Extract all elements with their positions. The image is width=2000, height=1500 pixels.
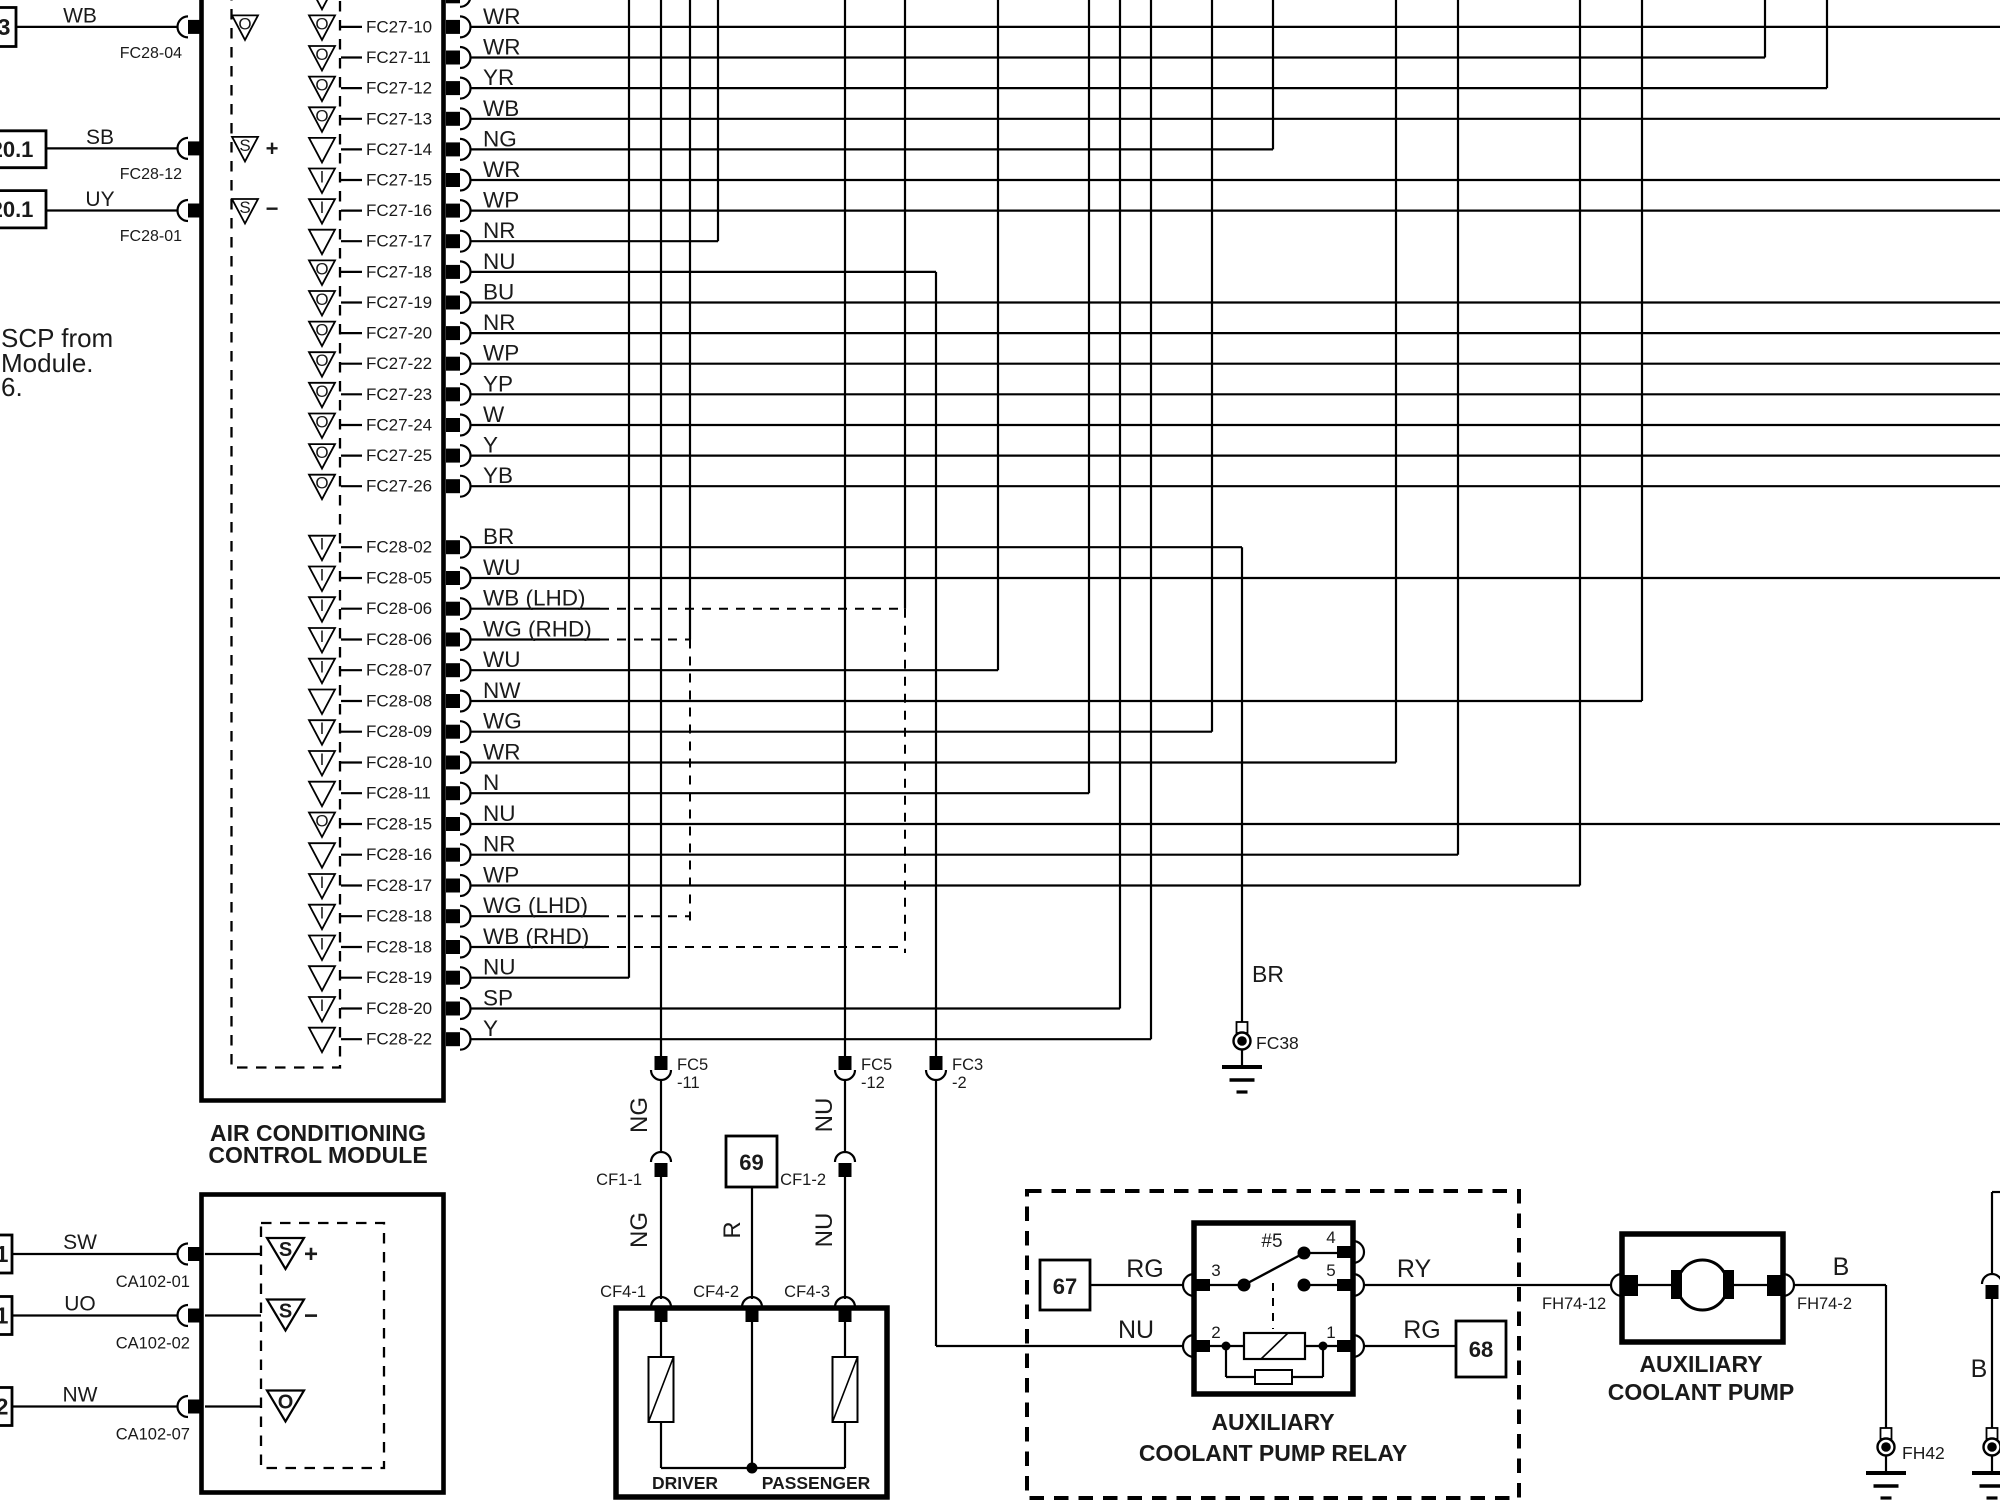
wire NU FC27-18 down to connector FC3-2: [471, 271, 936, 273]
svg-text:YP: YP: [483, 371, 513, 396]
wire B far right from page edge: [1992, 1191, 2000, 1193]
symbol triangle FC28-22: [309, 1028, 335, 1053]
svg-text:69: 69: [739, 1150, 763, 1175]
svg-text:FC27-19: FC27-19: [366, 293, 432, 312]
pin FC27-20: [446, 326, 460, 340]
motor brush right: [1723, 1270, 1734, 1299]
pin FC28-07: [446, 663, 460, 677]
symbol triangle FC27-20: [309, 322, 335, 347]
ground FC38: [1237, 1022, 1248, 1033]
svg-text:4: 4: [1326, 1228, 1335, 1247]
pin FC27-14: [446, 142, 460, 156]
svg-text:FC28-19: FC28-19: [366, 968, 432, 987]
pin tick FC27-15: [341, 179, 362, 181]
relay coil: [1210, 1345, 1244, 1347]
symbol triangle FC27-22: [309, 352, 335, 377]
svg-text:FC27-26: FC27-26: [366, 477, 432, 496]
svg-text:WG: WG: [483, 709, 522, 734]
svg-text:I: I: [320, 719, 325, 738]
svg-text:#5: #5: [1261, 1231, 1282, 1252]
pin FC27-18: [446, 265, 460, 279]
svg-text:O: O: [315, 76, 328, 95]
wire RG from 67 to relay pin 3: [1090, 1284, 1183, 1286]
relay pin 2: [1183, 1335, 1194, 1357]
wire driver resistor to junction: [660, 1422, 662, 1468]
svg-text:NU: NU: [483, 955, 516, 980]
svg-text:O: O: [315, 14, 328, 33]
wire Y FC28-22 turns up at x=1151: [471, 1038, 1151, 1040]
wire NG FC5-11 to CF1-1: [660, 1080, 662, 1152]
svg-text:FC28-02: FC28-02: [366, 538, 432, 557]
svg-text:FC28-20: FC28-20: [366, 999, 432, 1018]
symbol triangle FC28-20: [309, 997, 335, 1022]
connector box page-ref NW (cut at left edge): [0, 1388, 12, 1426]
pin CA102-02: [188, 1309, 202, 1323]
svg-text:−: −: [304, 1303, 318, 1330]
wire CF4-2 to junction: [751, 1322, 753, 1468]
pump pin FH74-2 bump: [1783, 1274, 1794, 1296]
pin FC27-22: [446, 357, 460, 371]
pin tick FC28-19: [341, 977, 362, 979]
wire NU CF1-2 to CF4-3: [844, 1177, 846, 1299]
svg-text:RG: RG: [1126, 1255, 1164, 1283]
module sun sensor box (DRIVER/PASSENGER): [616, 1308, 887, 1497]
svg-text:FH74-12: FH74-12: [1542, 1295, 1606, 1313]
symbol triangle FC28-08: [309, 690, 335, 715]
svg-text:FC28-12: FC28-12: [120, 166, 182, 183]
svg-text:S: S: [279, 1239, 292, 1261]
svg-text:WR: WR: [483, 740, 521, 765]
svg-text:PASSENGER: PASSENGER: [762, 1473, 871, 1493]
connector box 20.1 lower: [0, 191, 46, 228]
svg-text:BR: BR: [1252, 961, 1284, 987]
pin tick FC27-20: [341, 332, 362, 334]
svg-text:Y: Y: [483, 1016, 498, 1041]
connector CF4-2: [742, 1297, 762, 1307]
svg-text:FC28-15: FC28-15: [366, 815, 432, 834]
svg-text:FC28-22: FC28-22: [366, 1030, 432, 1049]
pin tick FC28-05: [341, 577, 362, 579]
symbol triangle FC27-15: [309, 169, 335, 194]
module ACCM inner dashed function box: [232, 0, 341, 1068]
pin FC28-18: [446, 909, 460, 923]
relay box: [1194, 1223, 1353, 1394]
svg-text:AUXILIARY: AUXILIARY: [1639, 1351, 1762, 1377]
relay switch blade #5: [1244, 1253, 1304, 1285]
wire UO inside module: [205, 1314, 261, 1316]
pin tick FC27-22: [341, 363, 362, 365]
wire Y FC27-25 to right edge: [471, 455, 2000, 457]
relay coil junction right: [1319, 1342, 1328, 1351]
wire NU from FC3-2 to relay pin 2: [935, 1080, 937, 1346]
pin FC27-15: [446, 173, 460, 187]
pin tick FC27-25: [341, 455, 362, 457]
svg-text:FC27-20: FC27-20: [366, 324, 432, 343]
svg-text:FC28-18: FC28-18: [366, 907, 432, 926]
pin tick FC28-09: [341, 731, 362, 733]
svg-text:FH74-2: FH74-2: [1797, 1295, 1852, 1313]
pin tick FC27-10: [341, 26, 362, 28]
svg-text:YB: YB: [483, 463, 513, 488]
wire SP FC28-20 turns up at x=1120: [471, 1007, 1120, 1009]
wire BR FC28-02 down to ground FC38: [471, 546, 1242, 548]
wire SB from box 20.1 to pin FC28-12: [46, 147, 177, 149]
wire YB FC27-26 to right edge: [471, 485, 2000, 487]
svg-text:-2: -2: [952, 1074, 967, 1092]
pin FC28-01: [188, 204, 202, 218]
pin FC28-20: [446, 1002, 460, 1016]
svg-text:R: R: [719, 1221, 746, 1238]
symbol triangle FC27-10: [309, 15, 335, 40]
pin FC27-19: [446, 296, 460, 310]
symbol triangle FC27-25: [309, 444, 335, 469]
symbol O triangle (FC28-04 output): [232, 15, 258, 40]
pump pin FH74-12 bump: [1611, 1274, 1622, 1296]
pin tick FC28-06: [341, 638, 362, 640]
pin FC27-17: [446, 234, 460, 248]
svg-text:FC27-24: FC27-24: [366, 416, 432, 435]
svg-text:NR: NR: [483, 218, 516, 243]
wire BU FC27-19 to right edge: [471, 301, 2000, 303]
symbol triangle S− CA102-02: [267, 1300, 304, 1331]
wire WB from box 3 to pin FC28-04: [16, 26, 177, 28]
motor brush left: [1671, 1270, 1682, 1299]
svg-text:NW: NW: [483, 678, 521, 703]
wire WG FC28-09 turns up at x=1212: [471, 731, 1212, 733]
wire NW to pin CA102-07: [12, 1405, 177, 1407]
pin tick FC27-16: [341, 210, 362, 212]
symbol triangle FC27-17: [309, 230, 335, 255]
svg-text:Y: Y: [483, 433, 498, 458]
symbol triangle FC28-18: [309, 936, 335, 961]
svg-text:2: 2: [0, 1394, 8, 1420]
svg-text:20.1: 20.1: [0, 197, 33, 222]
svg-text:B: B: [1833, 1253, 1850, 1281]
svg-text:FC27-25: FC27-25: [366, 446, 432, 465]
module ACCM box (lower connector): [202, 1195, 444, 1493]
symbol triangle FC28-07: [309, 659, 335, 684]
pin FC28-06: [446, 602, 460, 616]
pin tick FC27-11: [341, 56, 362, 58]
pin FC28-08: [446, 694, 460, 708]
resistor driver (variable): [649, 1357, 674, 1422]
svg-text:I: I: [320, 750, 325, 769]
pin tick FC28-08: [341, 700, 362, 702]
svg-text:S: S: [239, 198, 250, 217]
pin CA102-01: [188, 1247, 202, 1261]
svg-text:6.: 6.: [1, 372, 23, 402]
wire SW inside module: [205, 1253, 261, 1255]
svg-text:O: O: [315, 290, 328, 309]
pin FC27-26: [446, 479, 460, 493]
svg-text:CF1-2: CF1-2: [780, 1171, 826, 1189]
wire W FC27-24 to right edge: [471, 424, 2000, 426]
dashed wire link WG LHD/RHD at x=690: [689, 640, 691, 923]
pin FC27-25: [446, 449, 460, 463]
relay pin 4: [1353, 1241, 1364, 1263]
svg-text:FC28-05: FC28-05: [366, 569, 432, 588]
svg-text:BR: BR: [483, 524, 514, 549]
svg-text:FC28-01: FC28-01: [120, 228, 182, 245]
relay coil junction left: [1222, 1342, 1231, 1351]
svg-text:O: O: [315, 382, 328, 401]
pin FC28-12: [188, 141, 202, 155]
svg-text:NU: NU: [483, 249, 516, 274]
pin FC27-11: [446, 51, 460, 65]
pin tick FC27-19: [341, 301, 362, 303]
svg-text:I: I: [320, 996, 325, 1015]
symbol S- triangle (FC28-01 sensor minus): [232, 199, 258, 224]
motor circle: [1678, 1260, 1728, 1310]
relay pin 3: [1183, 1274, 1194, 1296]
pin FC28-17: [446, 879, 460, 893]
wire WP FC28-17 turns up at x=1580: [471, 884, 1580, 886]
svg-text:O: O: [315, 812, 328, 831]
svg-text:I: I: [320, 566, 325, 585]
wire YP FC27-23 to right edge: [471, 393, 2000, 395]
svg-text:COOLANT PUMP: COOLANT PUMP: [1608, 1379, 1795, 1405]
svg-text:O: O: [238, 14, 251, 33]
svg-text:O: O: [278, 1392, 294, 1414]
resistor passenger (variable): [833, 1357, 858, 1422]
wire YR FC27-12 turns up at x=1827: [471, 87, 1827, 89]
svg-text:1: 1: [1326, 1323, 1335, 1342]
wire passenger resistor to junction: [844, 1422, 846, 1468]
svg-text:FC27-12: FC27-12: [366, 79, 432, 98]
pump terminal left: [1623, 1275, 1638, 1296]
relay contact 5: [1298, 1279, 1311, 1292]
symbol triangle FC28-15: [309, 813, 335, 838]
pin FC27-23: [446, 387, 460, 401]
svg-text:NR: NR: [483, 832, 516, 857]
symbol triangle FC27-13: [309, 107, 335, 132]
svg-text:I: I: [320, 904, 325, 923]
svg-text:-12: -12: [861, 1074, 885, 1092]
ground far right (cut): [1987, 1428, 1998, 1439]
wire UY from box 20.1 to pin FC28-01: [46, 209, 177, 211]
svg-text:I: I: [320, 658, 325, 677]
svg-text:NG: NG: [483, 126, 517, 151]
svg-text:1: 1: [0, 1303, 9, 1329]
symbol triangle FC28-10: [309, 751, 335, 776]
svg-text:O: O: [315, 106, 328, 125]
symbol triangle FC28-09: [309, 720, 335, 745]
wire CF4-3 to passenger resistor: [844, 1322, 846, 1357]
pump box: [1622, 1234, 1783, 1342]
symbol triangle FC28-11: [309, 782, 335, 807]
pin FC28-05: [446, 571, 460, 585]
svg-text:O: O: [315, 259, 328, 278]
pin tick FC28-20: [341, 1007, 362, 1009]
connector box 69 (page ref): [726, 1136, 777, 1187]
symbol triangle FC28-17: [309, 874, 335, 899]
junction node: [747, 1463, 758, 1474]
assembly dashed box (auxiliary coolant pump relay): [1027, 1191, 1519, 1498]
pin tick FC27-14: [341, 148, 362, 150]
svg-text:-11: -11: [677, 1074, 700, 1092]
wire NU FC28-19 turns up at x=629: [471, 977, 629, 979]
symbol triangle FC27-24: [309, 414, 335, 439]
pin tick FC28-06: [341, 608, 362, 610]
wire WB (LHD) FC28-06 (variant, dashed continuation): [471, 608, 600, 610]
svg-text:FC27-18: FC27-18: [366, 262, 432, 281]
svg-text:FH42: FH42: [1902, 1443, 1945, 1463]
svg-text:YR: YR: [483, 65, 514, 90]
pin FC27-24: [446, 418, 460, 432]
pin tick FC27-18: [341, 271, 362, 273]
wire WR FC27-11 turns up at x=1765: [471, 56, 1765, 58]
symbol triangle S+ CA102-01: [267, 1238, 304, 1269]
pin FC28-22: [446, 1032, 460, 1046]
wire NW FC28-08 turns up at x=1642: [471, 700, 1642, 702]
svg-text:DRIVER: DRIVER: [652, 1473, 718, 1493]
svg-text:FC27-13: FC27-13: [366, 109, 432, 128]
svg-text:WG (LHD): WG (LHD): [483, 893, 588, 918]
pin FC28-04: [188, 20, 202, 34]
pin FC28-16: [446, 848, 460, 862]
svg-text:NR: NR: [483, 310, 516, 335]
connector CF4-1: [651, 1297, 671, 1307]
svg-text:I: I: [320, 535, 325, 554]
symbol triangle FC28-18: [309, 905, 335, 930]
module ACCM box (air conditioning control module, upper): [202, 0, 444, 1101]
connector box 20.1 upper: [0, 131, 46, 168]
wire NU FC28-15 to right edge: [471, 823, 2000, 825]
svg-text:CA102-07: CA102-07: [116, 1426, 190, 1444]
ground FH42: [1881, 1428, 1892, 1439]
svg-text:FC5: FC5: [861, 1056, 892, 1074]
svg-text:1: 1: [0, 1241, 9, 1267]
svg-text:I: I: [320, 935, 325, 954]
svg-text:FC28-16: FC28-16: [366, 845, 432, 864]
svg-text:WU: WU: [483, 647, 521, 672]
relay actuator dashed link: [1272, 1283, 1274, 1329]
svg-text:O: O: [315, 45, 328, 64]
connector box page-ref SW (cut at left edge): [0, 1235, 12, 1273]
svg-text:S: S: [239, 136, 250, 155]
svg-text:NG: NG: [626, 1097, 653, 1133]
wire RG from relay pin 1 to 68: [1364, 1345, 1456, 1347]
svg-text:FC28-08: FC28-08: [366, 692, 432, 711]
wire CF4-1 to driver resistor: [660, 1322, 662, 1357]
svg-text:68: 68: [1469, 1337, 1493, 1362]
relay contact 4: [1298, 1247, 1311, 1260]
svg-text:FC28-10: FC28-10: [366, 753, 432, 772]
svg-text:O: O: [315, 443, 328, 462]
symbol triangle FC27-16: [309, 199, 335, 224]
svg-text:FC3: FC3: [952, 1056, 983, 1074]
svg-text:O: O: [315, 351, 328, 370]
svg-text:I: I: [320, 873, 325, 892]
svg-text:RY: RY: [1397, 1255, 1432, 1283]
module ACCM lower inner dashed box: [261, 1223, 384, 1468]
svg-text:I: I: [320, 596, 325, 615]
svg-text:UO: UO: [64, 1293, 96, 1316]
pin FC28-11: [446, 786, 460, 800]
svg-text:FC28-11: FC28-11: [366, 784, 431, 803]
svg-text:RG: RG: [1403, 1316, 1441, 1344]
svg-text:WR: WR: [483, 4, 521, 29]
wire NR FC27-20 to right edge: [471, 332, 2000, 334]
svg-text:FC28-09: FC28-09: [366, 722, 432, 741]
svg-text:I: I: [320, 627, 325, 646]
svg-text:WU: WU: [483, 555, 521, 580]
symbol triangle FC28-05: [309, 567, 335, 592]
wire WR FC27-15 to right edge: [471, 179, 2000, 181]
wire B from pump to ground FH42: [1794, 1284, 1886, 1286]
svg-text:NU: NU: [483, 801, 516, 826]
wire N FC28-11 turns up at x=1089: [471, 792, 1089, 794]
svg-text:FC28-18: FC28-18: [366, 938, 432, 957]
svg-text:SB: SB: [86, 126, 114, 149]
svg-text:O: O: [315, 413, 328, 432]
svg-text:WR: WR: [483, 35, 521, 60]
pump internal wire: [1638, 1284, 1767, 1286]
svg-text:FC28-07: FC28-07: [366, 661, 432, 680]
relay pin 1: [1353, 1335, 1364, 1357]
wire NW inside module: [205, 1405, 261, 1407]
connector box 3 (page ref, cut at left edge): [0, 8, 16, 47]
pin tick FC28-02: [341, 546, 362, 548]
symbol triangle FC27-26: [309, 475, 335, 500]
svg-text:CONTROL MODULE: CONTROL MODULE: [208, 1142, 427, 1168]
svg-text:FC27-15: FC27-15: [366, 171, 432, 190]
svg-text:UY: UY: [85, 188, 114, 211]
svg-text:5: 5: [1326, 1261, 1335, 1280]
svg-text:67: 67: [1053, 1274, 1077, 1299]
pin tick FC28-17: [341, 884, 362, 886]
pin tick FC27-23: [341, 393, 362, 395]
wire RY from relay pin 5 to pump: [1364, 1284, 1611, 1286]
pin FC27-10: [446, 20, 460, 34]
connector FC5-12: [839, 1056, 852, 1070]
pin FC27-09 (partial, cut at top edge): [309, 0, 335, 9]
wire WB (RHD) FC28-18 (variant, dashed continuation): [471, 946, 600, 948]
svg-text:3: 3: [1211, 1261, 1220, 1280]
svg-text:FC27-23: FC27-23: [366, 385, 432, 404]
pin tick FC27-13: [341, 118, 362, 120]
wire WP FC27-16 to right edge: [471, 210, 2000, 212]
pin tick FC28-18: [341, 915, 362, 917]
connector CF1-2: [835, 1152, 855, 1162]
svg-text:FC5: FC5: [677, 1056, 708, 1074]
svg-text:COOLANT PUMP RELAY: COOLANT PUMP RELAY: [1139, 1440, 1407, 1466]
svg-text:FC27-16: FC27-16: [366, 201, 432, 220]
wire NR FC28-16 turns up at x=1458: [471, 854, 1458, 856]
pin tick FC28-11: [341, 792, 362, 794]
wire WR FC28-10 turns up at x=1396: [471, 761, 1396, 763]
connector FC5-11: [655, 1056, 668, 1070]
svg-text:WB (LHD): WB (LHD): [483, 586, 586, 611]
symbol triangle FC28-06: [309, 628, 335, 653]
pin tick FC27-17: [341, 240, 362, 242]
symbol triangle FC27-14: [309, 138, 335, 163]
pin FC28-10: [446, 756, 460, 770]
wire NG vertical feed to FC5-11: [660, 0, 662, 1056]
svg-text:S: S: [279, 1301, 292, 1323]
svg-text:20.1: 20.1: [0, 137, 33, 162]
svg-text:WB: WB: [63, 5, 97, 28]
pin tick FC27-12: [341, 87, 362, 89]
relay suppression resistor: [1225, 1346, 1227, 1377]
pin tick FC28-18: [341, 946, 362, 948]
svg-text:FC28-06: FC28-06: [366, 599, 432, 618]
svg-text:NW: NW: [63, 1384, 98, 1407]
wire WU FC28-05 to right edge: [471, 577, 2000, 579]
connector CF4-3: [835, 1297, 855, 1307]
svg-text:O: O: [315, 321, 328, 340]
pin tick FC27-24: [341, 424, 362, 426]
